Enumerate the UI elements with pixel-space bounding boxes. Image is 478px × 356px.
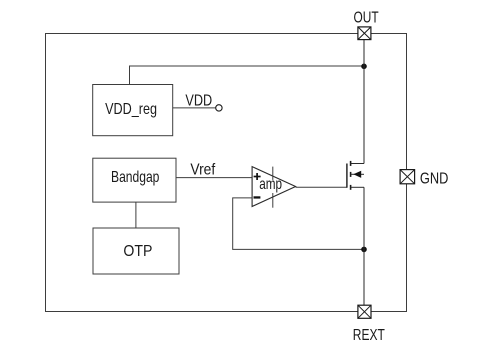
pad GND — [400, 170, 415, 184]
block OTP — [93, 228, 179, 274]
node junction feedback on REXT net — [361, 247, 367, 253]
node junction on OUT net — [361, 64, 367, 70]
svg-text:Bandgap: Bandgap — [111, 169, 159, 186]
wire op-amp minus input feedback — [233, 198, 364, 250]
wire op-amp output to gate — [296, 186, 347, 188]
terminal VDD open circle — [216, 105, 222, 111]
wire source to REXT pad — [363, 187, 365, 305]
transistor M1 NMOS — [347, 161, 364, 190]
op-amp U1 — [252, 167, 296, 208]
block VDD_reg — [93, 85, 173, 136]
svg-text:OUT: OUT — [354, 9, 379, 26]
svg-text:OTP: OTP — [123, 243, 152, 260]
wire Vref — [176, 177, 252, 179]
svg-text:Vref: Vref — [190, 161, 215, 178]
wire drain to OUT pad — [363, 40, 365, 164]
block Bandgap — [93, 158, 176, 202]
chip boundary — [46, 34, 407, 312]
svg-text:VDD_reg: VDD_reg — [105, 101, 157, 118]
wire Bandgap to OTP — [135, 202, 137, 228]
wire VDD_reg top to OUT net — [130, 66, 365, 85]
svg-text:REXT: REXT — [353, 327, 385, 344]
pad OUT — [358, 27, 371, 40]
wire VDD_reg output — [173, 107, 216, 109]
pad REXT — [358, 305, 371, 318]
svg-text:VDD: VDD — [185, 92, 212, 109]
svg-text:GND: GND — [420, 170, 449, 187]
svg-text:amp: amp — [259, 176, 282, 193]
